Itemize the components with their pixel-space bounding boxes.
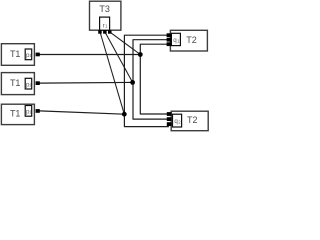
wire from T1 top (p1) to junction J1	[40, 54, 141, 56]
port r1 of T3	[100, 17, 110, 30]
diagonal wire T3 pin2 to J2	[105, 32, 133, 83]
component T2 (bottom right)	[171, 111, 208, 131]
junction J2	[130, 80, 135, 85]
junction J3	[122, 112, 127, 117]
wire column C: top T2 pin3 down through J1 to bottom T2 pin1	[140, 44, 169, 114]
svg-text:T1: T1	[10, 49, 21, 59]
component T1 (middle)	[1, 73, 34, 95]
pin of bottom T1 port	[36, 109, 40, 113]
component T1 (bottom)	[1, 104, 34, 124]
component T1 (top)	[1, 44, 34, 66]
wire column A: top T2 pin1 down through J3 to bottom T2 pin3	[124, 35, 169, 126]
pin 3 of bottom T2 port	[167, 122, 172, 126]
junction J1	[138, 52, 143, 57]
pin 2 of bottom T2 port	[167, 117, 172, 121]
port p1 of middle T1	[25, 78, 32, 89]
pin of middle T1 port	[36, 81, 40, 85]
pin 3 of T3 port	[108, 30, 112, 33]
port q1 of top T2	[171, 33, 180, 45]
diagonal wire T3 pin1 to J3	[100, 32, 124, 114]
svg-text:T1: T1	[10, 109, 21, 119]
component T2 (top right)	[170, 30, 207, 51]
pin 2 of T3 port	[103, 30, 107, 33]
wire from T1 middle (p1) to junction J2	[40, 81, 133, 84]
pin 1 of top T2 port	[167, 33, 172, 37]
svg-text:T2: T2	[186, 35, 197, 45]
wire column B: top T2 pin2 down through J2 to bottom T2 pin2	[133, 40, 169, 119]
pin of top T1 port	[36, 53, 40, 57]
pin 1 of T3 port	[98, 30, 102, 33]
pin 2 of top T2 port	[167, 38, 172, 42]
diagonal wire T3 pin3 to J1	[110, 32, 141, 55]
svg-text:T1: T1	[10, 78, 21, 88]
pin 3 of top T2 port	[167, 42, 172, 46]
svg-text:T3: T3	[99, 4, 110, 14]
pin 1 of bottom T2 port	[167, 112, 172, 116]
port q2 of bottom T2	[173, 114, 182, 127]
port p1 of top T1	[25, 49, 32, 60]
svg-text:T2: T2	[187, 115, 198, 125]
port p1 of bottom T1	[25, 106, 32, 117]
component T3	[90, 1, 121, 30]
wire from T1 bottom (p1) to junction J3	[40, 111, 125, 114]
